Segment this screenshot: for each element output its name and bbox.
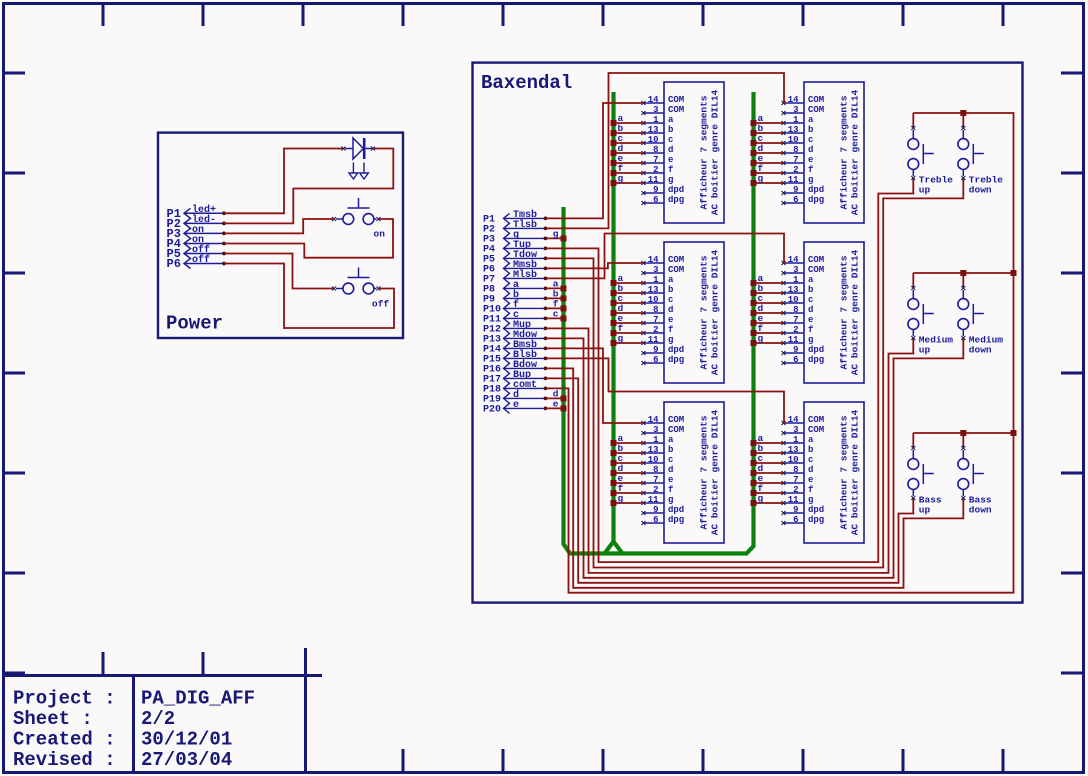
- svg-text:Revised :: Revised :: [13, 749, 116, 771]
- module box Baxendal: [473, 63, 1023, 603]
- connector pin P1 (led+): [167, 204, 224, 221]
- svg-text:10: 10: [648, 295, 659, 305]
- svg-text:dpg: dpg: [668, 195, 684, 205]
- svg-text:dpg: dpg: [808, 515, 824, 525]
- wire net Tup (P4 to SW Treble up): [546, 178, 914, 562]
- wire segment f bus to display pin (col1 row3): [614, 492, 644, 494]
- bus tap d col2 row2: [751, 303, 764, 316]
- svg-text:b: b: [808, 445, 813, 455]
- wire segment d bus to display pin (col2 row1): [754, 152, 784, 154]
- display AFF6 (Afficheur 7 segments AC boitier genre DIL14): [782, 402, 865, 543]
- bus column 1 (left displays): [605, 92, 623, 554]
- svg-text:9: 9: [653, 505, 658, 515]
- wire net comt Medium rail: [913, 272, 1013, 274]
- wire net led- (P2 to D1 cathode): [224, 149, 393, 224]
- svg-text:g: g: [758, 173, 764, 184]
- node P2 wire end: [544, 227, 548, 231]
- bus tap a col1 row1: [611, 113, 624, 126]
- pushbutton switch Medium up: [908, 273, 953, 356]
- wire segment c bus to display pin (col2 row2): [754, 302, 784, 304]
- svg-text:Power: Power: [166, 313, 223, 335]
- svg-text:27/03/04: 27/03/04: [141, 749, 232, 771]
- bus tap c col2 row3: [751, 453, 764, 466]
- svg-text:d: d: [808, 465, 813, 475]
- wire net comt Bass rail: [913, 432, 1013, 434]
- display AFF4 (Afficheur 7 segments AC boitier genre DIL14): [782, 242, 865, 383]
- svg-text:dpg: dpg: [808, 355, 824, 365]
- wire segment d bus to display pin (col1 row1): [614, 152, 644, 154]
- svg-text:14: 14: [648, 415, 659, 425]
- svg-text:11: 11: [648, 175, 659, 185]
- wire segment e bus to display pin (col1 row1): [614, 162, 644, 164]
- bus tap g col1 row2: [611, 333, 624, 346]
- bus tap g col1 row1: [611, 173, 624, 186]
- svg-text:g: g: [808, 175, 813, 185]
- svg-text:off: off: [372, 299, 389, 310]
- svg-text:10: 10: [648, 455, 659, 465]
- wire net on (P4 to S1 right): [224, 219, 393, 258]
- wire segment a bus to display pin (col1 row3): [614, 442, 644, 444]
- svg-text:a: a: [668, 115, 674, 125]
- svg-text:Afficheur 7 segments: Afficheur 7 segments: [699, 415, 710, 529]
- svg-text:PA_DIG_AFF: PA_DIG_AFF: [141, 688, 255, 710]
- connector pin P14 (Bmsb): [483, 339, 545, 356]
- svg-text:e: e: [668, 315, 673, 325]
- connector pin P6 (off): [167, 254, 224, 271]
- pushbutton switch Bass up: [908, 433, 942, 516]
- node P5 wire end: [222, 252, 226, 256]
- svg-text:dpd: dpd: [668, 185, 684, 195]
- node P17 wire end: [544, 377, 548, 381]
- bus tap c: [553, 308, 567, 321]
- svg-text:d: d: [668, 465, 673, 475]
- node P20 wire end: [544, 407, 548, 411]
- svg-text:a: a: [808, 435, 814, 445]
- wire net Bup (P17 to SW Bass up): [546, 378, 914, 582]
- wire net e to left bus: [546, 407, 564, 409]
- connector pin P3 (on): [167, 225, 224, 241]
- svg-text:e: e: [808, 315, 813, 325]
- svg-text:6: 6: [793, 515, 798, 525]
- wire segment e bus to display pin (col1 row3): [614, 482, 644, 484]
- svg-text:COM: COM: [808, 415, 824, 425]
- bus tap a col2 row1: [751, 113, 764, 126]
- svg-text:g: g: [618, 493, 624, 504]
- svg-text:2: 2: [793, 165, 798, 175]
- bus tap e: [553, 398, 567, 411]
- wire net a to left bus: [546, 287, 564, 289]
- svg-text:COM: COM: [668, 255, 684, 265]
- svg-text:a: a: [808, 115, 814, 125]
- svg-text:b: b: [668, 285, 673, 295]
- bus tap c col2 row2: [751, 293, 764, 306]
- svg-text:7: 7: [653, 315, 658, 325]
- wire net g to left bus: [546, 237, 564, 239]
- connector pin P19 (d): [483, 389, 545, 406]
- node P16 wire end: [544, 367, 548, 371]
- svg-text:2: 2: [793, 485, 798, 495]
- svg-text:AC boitier genre DIL14: AC boitier genre DIL14: [850, 249, 861, 375]
- wire segment b bus to display pin (col2 row1): [754, 132, 784, 134]
- svg-text:off: off: [192, 254, 210, 266]
- svg-text:14: 14: [788, 415, 799, 425]
- svg-text:10: 10: [788, 455, 799, 465]
- svg-text:AC boitier genre DIL14: AC boitier genre DIL14: [850, 409, 861, 535]
- svg-text:30/12/01: 30/12/01: [141, 729, 232, 751]
- wire segment a bus to display pin (col1 row2): [614, 282, 644, 284]
- svg-text:AC boitier genre DIL14: AC boitier genre DIL14: [710, 409, 721, 535]
- svg-text:g: g: [668, 495, 673, 505]
- svg-text:d: d: [808, 145, 813, 155]
- pushbutton switch S2 (off): [332, 268, 389, 310]
- svg-text:6: 6: [653, 515, 658, 525]
- wire segment e bus to display pin (col2 row1): [754, 162, 784, 164]
- connector pin P4 (Tup): [483, 240, 545, 256]
- node P1 wire end: [544, 217, 548, 221]
- svg-text:a: a: [808, 275, 814, 285]
- node P6 wire end: [544, 267, 548, 271]
- wire net Blsb (P15 to AFF6 COM): [546, 358, 785, 423]
- connector pin P15 (Blsb): [483, 349, 545, 366]
- junction comt/Bass down: [960, 430, 966, 436]
- svg-text:f: f: [668, 485, 673, 495]
- wire segment a bus to display pin (col2 row3): [754, 442, 784, 444]
- bus tap g col2 row3: [751, 493, 764, 506]
- svg-text:f: f: [808, 325, 813, 335]
- svg-text:8: 8: [793, 145, 798, 155]
- connector J1 zigzag edge: [184, 208, 191, 268]
- svg-text:dpd: dpd: [668, 345, 684, 355]
- module box Power: [158, 133, 403, 338]
- bus tap e col2 row3: [751, 473, 764, 486]
- connector pin P13 (Mdow): [483, 329, 545, 346]
- node P10 wire end: [544, 307, 548, 311]
- wire segment b bus to display pin (col1 row2): [614, 292, 644, 294]
- bus tap f col2 row3: [751, 483, 764, 496]
- svg-text:14: 14: [788, 95, 799, 105]
- svg-text:3: 3: [653, 265, 658, 275]
- svg-text:Project :: Project :: [13, 688, 116, 710]
- svg-text:g: g: [618, 333, 624, 344]
- wire segment e bus to display pin (col1 row2): [614, 322, 644, 324]
- svg-text:3: 3: [793, 105, 798, 115]
- pushbutton switch Treble down: [958, 113, 1003, 196]
- wire segment d bus to display pin (col2 row3): [754, 472, 784, 474]
- svg-text:8: 8: [653, 305, 658, 315]
- svg-text:P20: P20: [483, 404, 501, 415]
- bus tap a: [553, 278, 567, 291]
- wire segment g bus to display pin (col1 row2): [614, 342, 644, 344]
- wire net Mdow (P13 to SW Medium down): [546, 338, 964, 578]
- svg-text:f: f: [808, 165, 813, 175]
- svg-text:1: 1: [653, 275, 659, 285]
- svg-text:g: g: [758, 493, 764, 504]
- wire segment c bus to display pin (col1 row1): [614, 142, 644, 144]
- wire segment f bus to display pin (col2 row2): [754, 332, 784, 334]
- svg-text:d: d: [808, 305, 813, 315]
- bus tap e col1 row1: [611, 153, 624, 166]
- svg-text:3: 3: [793, 425, 798, 435]
- wire segment c bus to display pin (col1 row3): [614, 462, 644, 464]
- connector pin P10 (f): [483, 299, 545, 316]
- svg-text:dpd: dpd: [808, 185, 824, 195]
- svg-text:10: 10: [788, 295, 799, 305]
- wire net Tdow (P5 to SW Treble down): [546, 178, 964, 568]
- svg-text:7: 7: [653, 155, 658, 165]
- wire segment f bus to display pin (col2 row3): [754, 492, 784, 494]
- pushbutton switch Bass down: [958, 433, 992, 516]
- wire segment d bus to display pin (col1 row3): [614, 472, 644, 474]
- svg-text:9: 9: [653, 345, 658, 355]
- bus tap b: [553, 288, 567, 301]
- svg-text:down: down: [969, 505, 992, 516]
- bus tap f col2 row1: [751, 163, 764, 176]
- svg-text:down: down: [969, 185, 992, 196]
- svg-text:COM: COM: [668, 105, 684, 115]
- svg-text:f: f: [808, 485, 813, 495]
- node P12 wire end: [544, 327, 548, 331]
- junction comt Bass rail: [1011, 430, 1017, 436]
- bus tap d: [553, 388, 567, 401]
- wire segment e bus to display pin (col2 row3): [754, 482, 784, 484]
- bus tap a col2 row2: [751, 273, 764, 286]
- wire segment b bus to display pin (col1 row1): [614, 132, 644, 134]
- svg-text:8: 8: [653, 145, 658, 155]
- wire segment f bus to display pin (col2 row1): [754, 172, 784, 174]
- bus tap f col1 row2: [611, 323, 624, 336]
- connector pin P4 (on): [167, 235, 224, 251]
- svg-text:11: 11: [788, 175, 799, 185]
- connector pin P17 (Bup): [483, 370, 545, 386]
- bus tap f col1 row1: [611, 163, 624, 176]
- connector pin P8 (a): [483, 280, 545, 296]
- connector pin P12 (Mup): [483, 320, 545, 336]
- svg-text:Afficheur 7 segments: Afficheur 7 segments: [839, 255, 850, 369]
- bus tap a col1 row3: [611, 433, 624, 446]
- svg-text:2: 2: [653, 165, 658, 175]
- connector pin P20 (e): [483, 400, 545, 416]
- svg-text:8: 8: [793, 465, 798, 475]
- svg-text:d: d: [668, 145, 673, 155]
- node P3 wire end: [544, 237, 548, 241]
- display AFF1 (Afficheur 7 segments AC boitier genre DIL14): [642, 82, 725, 223]
- bus tap c col1 row3: [611, 453, 624, 466]
- svg-text:b: b: [808, 125, 813, 135]
- svg-text:1: 1: [793, 435, 799, 445]
- connector pin P2 (led-): [167, 214, 224, 231]
- bus tap a col2 row3: [751, 433, 764, 446]
- wire net Mmsb (P6 to AFF3 COM): [546, 263, 644, 268]
- wire net Mup (P12 to SW Medium up): [546, 328, 914, 573]
- bus tap d col1 row2: [611, 303, 624, 316]
- svg-text:AC boitier genre DIL14: AC boitier genre DIL14: [710, 89, 721, 215]
- node P9 wire end: [544, 297, 548, 301]
- svg-text:a: a: [668, 275, 674, 285]
- title block: [4, 648, 323, 772]
- node P18 wire end: [544, 387, 548, 391]
- svg-text:dpg: dpg: [668, 355, 684, 365]
- svg-text:Sheet :: Sheet :: [13, 708, 93, 730]
- pushbutton switch S1 (on): [332, 198, 385, 240]
- svg-text:6: 6: [793, 195, 798, 205]
- wire net d to left bus: [546, 397, 564, 399]
- wire segment g bus to display pin (col1 row3): [614, 502, 644, 504]
- svg-text:g: g: [758, 333, 764, 344]
- svg-text:COM: COM: [668, 425, 684, 435]
- wire net Tmsb (P1 to AFF1 COM): [546, 103, 644, 218]
- svg-text:11: 11: [788, 335, 799, 345]
- bus tap d col1 row3: [611, 463, 624, 476]
- svg-text:f: f: [668, 325, 673, 335]
- wire net Bdow (P16 to SW Bass down): [546, 368, 964, 587]
- pushbutton switch Medium down: [958, 273, 1003, 356]
- bus tap d col1 row1: [611, 143, 624, 156]
- pushbutton switch Treble up: [908, 113, 953, 196]
- svg-text:Afficheur 7 segments: Afficheur 7 segments: [699, 255, 710, 369]
- svg-text:6: 6: [793, 355, 798, 365]
- svg-text:2: 2: [793, 325, 798, 335]
- bus tap d col2 row3: [751, 463, 764, 476]
- connector J2 zigzag edge: [504, 213, 510, 413]
- node P5 wire end: [544, 257, 548, 261]
- node P19 wire end: [544, 397, 548, 401]
- svg-text:on: on: [374, 229, 386, 240]
- svg-text:f: f: [668, 165, 673, 175]
- svg-text:9: 9: [793, 505, 798, 515]
- svg-text:Afficheur 7 segments: Afficheur 7 segments: [839, 95, 850, 209]
- svg-text:AC boitier genre DIL14: AC boitier genre DIL14: [850, 89, 861, 215]
- wire net Bmsb (P14 to AFF5 COM): [546, 348, 644, 423]
- svg-text:7: 7: [793, 475, 798, 485]
- svg-text:dpg: dpg: [668, 515, 684, 525]
- bus tap e col1 row3: [611, 473, 624, 486]
- svg-text:COM: COM: [808, 255, 824, 265]
- connector pin P18 (comt): [483, 380, 545, 396]
- svg-text:6: 6: [653, 355, 658, 365]
- bus tap b col1 row3: [611, 443, 624, 456]
- junction comt Medium rail: [1011, 270, 1017, 276]
- bus tap f: [553, 298, 567, 311]
- svg-text:9: 9: [793, 345, 798, 355]
- svg-text:10: 10: [788, 135, 799, 145]
- wire net b to left bus: [546, 297, 564, 299]
- wire segment g bus to display pin (col1 row1): [614, 182, 644, 184]
- svg-text:e: e: [808, 155, 813, 165]
- svg-text:7: 7: [793, 155, 798, 165]
- svg-text:dpd: dpd: [808, 345, 824, 355]
- bus tap b col1 row1: [611, 123, 624, 136]
- svg-text:11: 11: [788, 495, 799, 505]
- wire net Tlsb (P2 to AFF2 COM): [546, 73, 785, 228]
- bus tap c col2 row1: [751, 133, 764, 146]
- node P7 wire end: [544, 277, 548, 281]
- svg-text:8: 8: [793, 305, 798, 315]
- svg-text:e: e: [668, 155, 673, 165]
- wire segment e bus to display pin (col2 row2): [754, 322, 784, 324]
- svg-text:13: 13: [788, 285, 799, 295]
- svg-text:e: e: [553, 398, 559, 409]
- bus tap g: [553, 228, 567, 241]
- display AFF5 (Afficheur 7 segments AC boitier genre DIL14): [642, 402, 725, 543]
- node P2 wire end: [222, 222, 226, 226]
- svg-text:b: b: [668, 125, 673, 135]
- connector pin P2 (Tlsb): [483, 219, 545, 236]
- bus tap b col2 row1: [751, 123, 764, 136]
- svg-text:b: b: [668, 445, 673, 455]
- wire segment a bus to display pin (col2 row1): [754, 122, 784, 124]
- wire net comt (P18 common rail): [546, 113, 1014, 593]
- svg-text:c: c: [808, 455, 813, 465]
- bus tap b col1 row2: [611, 283, 624, 296]
- svg-text:1: 1: [653, 115, 659, 125]
- svg-text:d: d: [668, 305, 673, 315]
- svg-text:c: c: [668, 135, 673, 145]
- svg-text:COM: COM: [808, 95, 824, 105]
- connector pin P7 (Mlsb): [483, 269, 545, 286]
- svg-text:P6: P6: [167, 257, 181, 271]
- bus tap g col1 row3: [611, 493, 624, 506]
- svg-text:e: e: [513, 400, 519, 411]
- bus tap e col1 row2: [611, 313, 624, 326]
- svg-text:Afficheur 7 segments: Afficheur 7 segments: [699, 95, 710, 209]
- svg-text:c: c: [668, 295, 673, 305]
- svg-text:g: g: [553, 228, 559, 239]
- connector pin P11 (c): [483, 310, 545, 326]
- svg-text:e: e: [808, 475, 813, 485]
- svg-text:b: b: [808, 285, 813, 295]
- wire net c to left bus: [546, 317, 564, 319]
- svg-text:g: g: [668, 175, 673, 185]
- wire segment b bus to display pin (col2 row3): [754, 452, 784, 454]
- wire segment a bus to display pin (col1 row1): [614, 122, 644, 124]
- svg-text:up: up: [919, 185, 931, 196]
- svg-text:down: down: [969, 345, 992, 356]
- svg-text:c: c: [808, 295, 813, 305]
- svg-text:AC boitier genre DIL14: AC boitier genre DIL14: [710, 249, 721, 375]
- svg-text:Afficheur 7 segments: Afficheur 7 segments: [839, 415, 850, 529]
- svg-text:3: 3: [653, 425, 658, 435]
- svg-text:14: 14: [648, 255, 659, 265]
- node P15 wire end: [544, 357, 548, 361]
- bus tap d col2 row1: [751, 143, 764, 156]
- svg-text:11: 11: [648, 335, 659, 345]
- svg-text:COM: COM: [668, 265, 684, 275]
- svg-text:1: 1: [653, 435, 659, 445]
- svg-text:g: g: [618, 173, 624, 184]
- svg-text:8: 8: [653, 465, 658, 475]
- svg-text:14: 14: [788, 255, 799, 265]
- svg-text:1: 1: [793, 115, 799, 125]
- wire segment g bus to display pin (col2 row1): [754, 182, 784, 184]
- connector pin P3 (g): [483, 230, 545, 246]
- bus tap f col2 row2: [751, 323, 764, 336]
- svg-text:14: 14: [648, 95, 659, 105]
- svg-text:9: 9: [793, 185, 798, 195]
- display AFF2 (Afficheur 7 segments AC boitier genre DIL14): [782, 82, 865, 223]
- svg-text:COM: COM: [668, 415, 684, 425]
- junction comt/Treble down: [960, 110, 966, 116]
- svg-text:dpd: dpd: [808, 505, 824, 515]
- bus tap c col1 row1: [611, 133, 624, 146]
- wire segment c bus to display pin (col2 row1): [754, 142, 784, 144]
- wire segment f bus to display pin (col1 row1): [614, 172, 644, 174]
- node P11 wire end: [544, 317, 548, 321]
- bus tap g col2 row1: [751, 173, 764, 186]
- svg-text:13: 13: [648, 445, 659, 455]
- svg-text:3: 3: [793, 265, 798, 275]
- wire segment g bus to display pin (col2 row3): [754, 502, 784, 504]
- connector pin P1 (Tmsb): [483, 209, 545, 226]
